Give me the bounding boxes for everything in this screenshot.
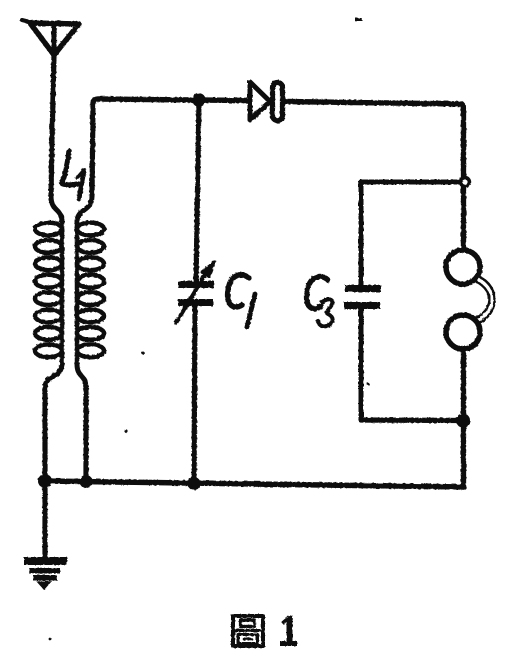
stray dot mid right — [367, 383, 370, 386]
wire top rail right of diode — [286, 102, 461, 105]
diode D1 triangle — [250, 82, 270, 120]
wire right rail upper — [461, 104, 464, 250]
node junction C1 bottom — [188, 477, 201, 490]
node junction C3/headphone bottom — [456, 414, 470, 428]
stray dot left — [124, 429, 127, 432]
wire right coil top s-curve — [77, 196, 92, 222]
wire top rail — [93, 99, 249, 104]
wire C1 bottom lead — [194, 306, 195, 484]
node junction top of C1 — [192, 93, 206, 107]
wire C3 top lead — [359, 182, 364, 286]
wire C1 top lead — [196, 100, 199, 282]
stray dot bottom — [49, 638, 52, 641]
wire right rail lower — [461, 349, 466, 487]
caption figure glyph — [233, 616, 263, 646]
wire left coil top s-curve — [51, 196, 62, 222]
headphone headband double arc — [478, 277, 495, 324]
headphone earpiece bottom — [446, 315, 480, 349]
wire right coil bottom s-curve — [77, 364, 86, 388]
antenna — [22, 20, 79, 55]
wire bottom rail — [45, 481, 464, 487]
wire left side down to bottom rail — [42, 388, 47, 481]
node junction primary bottom — [38, 474, 52, 488]
node open junction right rail — [461, 178, 470, 187]
capacitor C1 top plate — [178, 281, 214, 288]
label L1 — [62, 151, 84, 199]
wire ground lead — [42, 481, 47, 558]
capacitor C3 bottom plate — [344, 302, 380, 309]
node junction secondary bottom — [80, 475, 93, 488]
wire antenna lead down — [51, 55, 54, 196]
capacitor C3 top plate — [345, 285, 381, 292]
wire secondary bottom down to bottom rail — [83, 388, 88, 481]
headphone earpiece top — [446, 250, 480, 284]
wire right coil riser (top rail left end) — [92, 104, 93, 196]
wire C3 loop top — [361, 180, 464, 185]
ground symbol — [24, 557, 67, 590]
label C1 — [228, 275, 255, 327]
stray mark top — [355, 18, 362, 21]
caption number 1 — [280, 616, 297, 647]
stray dot coil right — [142, 352, 145, 355]
label C3 — [307, 276, 333, 326]
inductor L1 primary winding — [35, 220, 62, 364]
wire left coil bottom s-curve — [45, 364, 62, 388]
capacitor C1 variable arrow — [176, 261, 215, 323]
wire C3 bottom lead — [359, 309, 364, 420]
wire C3 loop bottom — [361, 417, 463, 423]
inductor L1 secondary winding — [77, 220, 104, 364]
capacitor C1 bottom plate — [178, 299, 213, 306]
diode D1 cathode bar — [273, 83, 283, 121]
